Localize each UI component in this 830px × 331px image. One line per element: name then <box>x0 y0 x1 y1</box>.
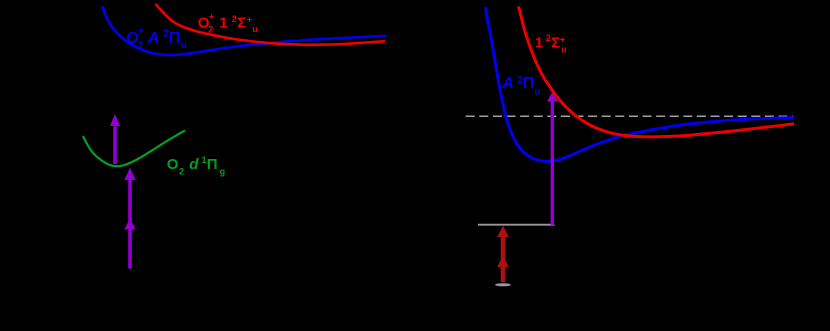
svg-text:1: 1 <box>535 34 543 51</box>
dissociation limit dashed line (gray) <box>466 115 793 117</box>
svg-text:Σ: Σ <box>551 34 560 51</box>
intermediate level line (gray) <box>478 224 555 226</box>
ground level ellipse (gray) <box>495 283 511 286</box>
svg-text:u: u <box>252 24 258 34</box>
svg-text:2: 2 <box>232 14 237 24</box>
left panel O2+ A2Pu curve (blue) <box>102 6 386 55</box>
left panel second photon arrowhead (purple) <box>124 168 135 181</box>
right panel A2Pu curve (blue) <box>486 7 795 161</box>
svg-text:A: A <box>501 75 514 92</box>
svg-text:+: + <box>209 12 214 22</box>
left panel lower photon arrow (purple) <box>128 179 132 269</box>
svg-text:Π: Π <box>523 75 535 92</box>
svg-text:+: + <box>247 14 252 24</box>
svg-text:O: O <box>167 156 179 173</box>
svg-text:2: 2 <box>138 41 144 52</box>
label O2 d 1Pi_g (green) <box>167 155 225 177</box>
svg-text:d: d <box>189 156 199 173</box>
right panel pump arrow (purple) <box>551 102 554 226</box>
label 1 2Sigma_u+ (red, right) <box>535 33 567 54</box>
right panel second red arrowhead <box>497 256 509 267</box>
svg-text:u: u <box>561 44 567 54</box>
svg-text:1: 1 <box>219 15 227 32</box>
svg-text:g: g <box>220 166 226 176</box>
label A 2Pi_u (blue, right) <box>501 75 540 97</box>
svg-text:Σ: Σ <box>237 15 246 32</box>
left panel O2 d1Pig curve (green) <box>83 131 185 167</box>
svg-text:2: 2 <box>208 25 213 35</box>
svg-text:+: + <box>138 26 144 37</box>
svg-text:+: + <box>560 35 565 45</box>
svg-text:u: u <box>535 87 541 98</box>
svg-text:A: A <box>147 30 160 47</box>
right panel 1 2Sigma_u+ curve (red) <box>519 7 795 137</box>
left panel O2+ 1 2Sigma_u+ curve (red) <box>156 4 386 45</box>
right panel red photon arrow (dark red) <box>501 237 506 283</box>
svg-text:Π: Π <box>207 156 218 173</box>
label O2+ A 2Pi_u (blue) <box>126 26 187 52</box>
svg-text:Π: Π <box>169 30 181 47</box>
svg-text:2: 2 <box>179 167 184 177</box>
svg-text:2: 2 <box>546 33 551 43</box>
left panel ionizing photon arrow (purple) <box>113 126 117 164</box>
svg-text:u: u <box>181 40 187 51</box>
label O2+ 1 2Sigma_u+ (red) <box>198 12 258 35</box>
